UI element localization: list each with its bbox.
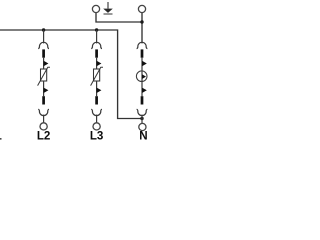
svg-text:L3: L3 (90, 130, 104, 143)
svg-text:N: N (139, 130, 147, 143)
svg-text:L2: L2 (37, 130, 51, 143)
